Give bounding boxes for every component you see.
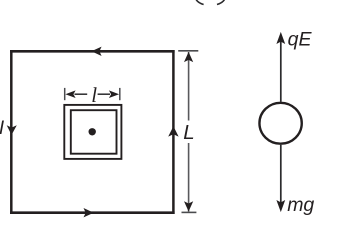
- wire: loop right side: [172, 50, 175, 214]
- dimension L: down arrowhead: [184, 201, 193, 211]
- force label qE: [288, 29, 313, 51]
- force label mg: [287, 194, 314, 216]
- current arrow on top wire (pointing left): [91, 47, 101, 56]
- dimension L: vertical line lower segment: [188, 143, 190, 212]
- inner coil outer square: [64, 105, 121, 159]
- inner coil inner square: [71, 110, 117, 154]
- dimension l: left arrow: [65, 90, 87, 98]
- current label I (cropped at left edge): [0, 118, 5, 139]
- svg-text:mg: mg: [287, 194, 314, 216]
- current arrow on left wire (pointing down): [7, 125, 17, 135]
- dimension label l: [91, 83, 97, 107]
- dimension L: bottom tick: [182, 211, 197, 213]
- force arrow qE (upward): [276, 32, 285, 102]
- charged ball: [259, 103, 301, 144]
- figure label left parenthesis (cropped at top): [196, 0, 204, 4]
- force arrow mg (downward): [276, 145, 285, 212]
- current arrow on bottom wire (pointing right): [84, 208, 94, 217]
- dimension L: up arrowhead: [184, 52, 193, 62]
- dimension L: vertical line upper segment: [188, 52, 190, 121]
- dimension l: right tick: [119, 88, 121, 100]
- field dot at coil center: [89, 128, 96, 135]
- wire: loop bottom side: [10, 211, 175, 214]
- dimension l: right arrow: [98, 90, 120, 98]
- wire: loop left side: [10, 50, 13, 214]
- svg-text:l: l: [91, 83, 97, 107]
- dimension label L: [183, 121, 194, 144]
- current arrow on right wire (pointing up): [168, 126, 178, 136]
- svg-text:qE: qE: [288, 29, 313, 51]
- svg-text:L: L: [183, 121, 194, 144]
- wire: loop top side: [10, 50, 175, 53]
- dimension l: left tick: [64, 88, 66, 100]
- figure label right parenthesis (cropped at top): [217, 0, 225, 4]
- svg-text:I: I: [0, 118, 5, 139]
- dimension L: top tick: [178, 50, 198, 52]
